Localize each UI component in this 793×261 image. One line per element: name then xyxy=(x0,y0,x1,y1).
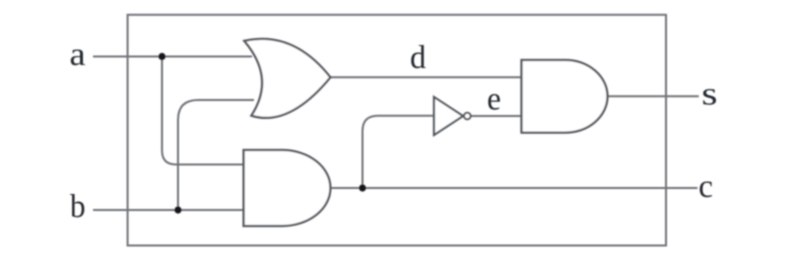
junction node on c xyxy=(359,184,366,191)
svg-text:b: b xyxy=(70,189,86,225)
junction node on b xyxy=(174,206,181,213)
not-gate U1 triangle xyxy=(434,97,463,135)
wire d (OR1 output to AND2) xyxy=(329,76,522,78)
wire e (NOT output to AND2) xyxy=(471,115,522,117)
and-gate AND1 xyxy=(244,150,331,226)
svg-text:e: e xyxy=(487,82,501,118)
enclosure box xyxy=(128,15,666,246)
wire c (AND1 output to output c) xyxy=(329,187,698,189)
or-gate OR1 xyxy=(244,39,330,118)
svg-text:s: s xyxy=(702,77,718,113)
and-gate AND2 xyxy=(522,60,608,133)
not-gate U1 bubble xyxy=(464,113,471,120)
svg-text:a: a xyxy=(70,37,86,73)
svg-text:d: d xyxy=(410,40,426,76)
svg-text:c: c xyxy=(699,169,714,205)
wire branch to NOT xyxy=(363,116,435,188)
wire s output xyxy=(607,95,699,97)
wire b branch to OR1 xyxy=(178,100,254,210)
junction node on a xyxy=(158,53,165,60)
wire b input xyxy=(93,209,245,211)
wire a branch to AND1 xyxy=(162,57,245,165)
wire a input xyxy=(93,56,252,58)
